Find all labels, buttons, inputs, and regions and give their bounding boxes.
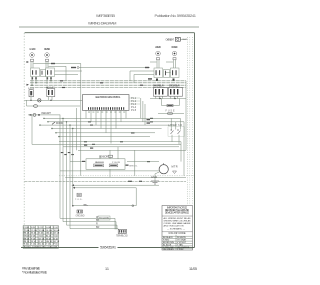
svg-text:* Non-Illustrated Parts: * Non-Illustrated Parts: [22, 271, 47, 275]
svg-text:T.O.D.: T.O.D.: [75, 199, 83, 201]
svg-text:RR 1200: RR 1200: [172, 46, 179, 49]
svg-text:OVEN LIGHT: OVEN LIGHT: [41, 113, 52, 115]
svg-text:— SCHEMATIC —: — SCHEMATIC —: [167, 228, 186, 231]
svg-text:LF 1200: LF 1200: [30, 48, 37, 51]
svg-text:R: R: [96, 223, 98, 226]
svg-text:Publication No. 5995435241: Publication No. 5995435241: [155, 13, 197, 18]
svg-text:GN 14: GN 14: [46, 241, 53, 243]
svg-text:TOTAL CONNECTED LOAD KW: TOTAL CONNECTED LOAD KW: [24, 246, 57, 249]
svg-text:P1-5: P1-5: [131, 109, 137, 112]
svg-text:12 GA: 12 GA: [39, 229, 45, 232]
svg-text:SENSOR: SENSOR: [99, 156, 108, 159]
svg-text:OVEN LIGHT: OVEN LIGHT: [166, 38, 175, 41]
svg-text:GY 18: GY 18: [54, 233, 61, 235]
svg-text:BL 18: BL 18: [46, 236, 52, 238]
svg-text:GND: GND: [151, 176, 157, 179]
svg-text:5995435241: 5995435241: [100, 246, 116, 250]
svg-text:BAKE ELEM: BAKE ELEM: [95, 161, 104, 164]
svg-text:L1 BK: L1 BK: [24, 227, 30, 229]
svg-text:12 GA: 12 GA: [24, 229, 30, 232]
svg-text:DEVICES AFTER SERVICE: DEVICES AFTER SERVICE: [165, 212, 189, 215]
svg-text:BROIL RELAY: BROIL RELAY: [169, 85, 180, 88]
svg-text:BK 14: BK 14: [24, 241, 30, 243]
svg-text:BAKE RELAY: BAKE RELAY: [153, 85, 164, 88]
svg-text:GN GREEN: GN GREEN: [163, 249, 174, 251]
svg-text:N W: N W: [31, 227, 35, 229]
svg-text:G GN: G GN: [46, 227, 52, 229]
svg-text:P PINK: P PINK: [177, 249, 184, 251]
svg-text:11/05: 11/05: [189, 267, 197, 271]
svg-text:GROUND: GROUND: [76, 215, 85, 218]
svg-text:WEF365ESB: WEF365ESB: [96, 13, 115, 18]
svg-text:GN 18: GN 18: [46, 233, 53, 235]
svg-text:AND INSULATION: AND INSULATION: [164, 225, 184, 228]
svg-text:RF 2600: RF 2600: [44, 48, 51, 51]
svg-text:11: 11: [105, 267, 109, 271]
svg-text:12 GA: 12 GA: [31, 229, 37, 232]
svg-text:L2 R: L2 R: [39, 227, 44, 229]
svg-text:ELECTRONIC OVEN CONTROL: ELECTRONIC OVEN CONTROL: [96, 96, 122, 99]
svg-text:WIRING DIAGRAM: WIRING DIAGRAM: [88, 20, 117, 25]
svg-text:TERM BLOCK: TERM BLOCK: [116, 235, 128, 238]
svg-text:F GY: F GY: [54, 227, 59, 229]
svg-text:LR 1200: LR 1200: [155, 46, 162, 49]
svg-text:W-36: W-36: [183, 39, 189, 41]
svg-text:BL 16: BL 16: [39, 244, 45, 246]
svg-text:BROIL: BROIL: [130, 166, 139, 168]
svg-text:BK 18: BK 18: [24, 233, 30, 235]
svg-text:COLOR CODE: COLOR CODE: [169, 233, 186, 235]
svg-text:16 GA: 16 GA: [54, 229, 60, 232]
svg-text:BR: BR: [96, 226, 100, 229]
svg-text:2100W: 2100W: [112, 162, 121, 164]
svg-text:DOOR: DOOR: [56, 122, 63, 125]
svg-text:DLB: DLB: [28, 88, 35, 90]
svg-text:RELAY: RELAY: [47, 86, 56, 89]
svg-text:14 GA: 14 GA: [46, 229, 52, 232]
svg-text:OR 18: OR 18: [24, 236, 31, 238]
svg-text:MTR: MTR: [172, 166, 178, 169]
svg-text:GY 14: GY 14: [54, 241, 61, 243]
